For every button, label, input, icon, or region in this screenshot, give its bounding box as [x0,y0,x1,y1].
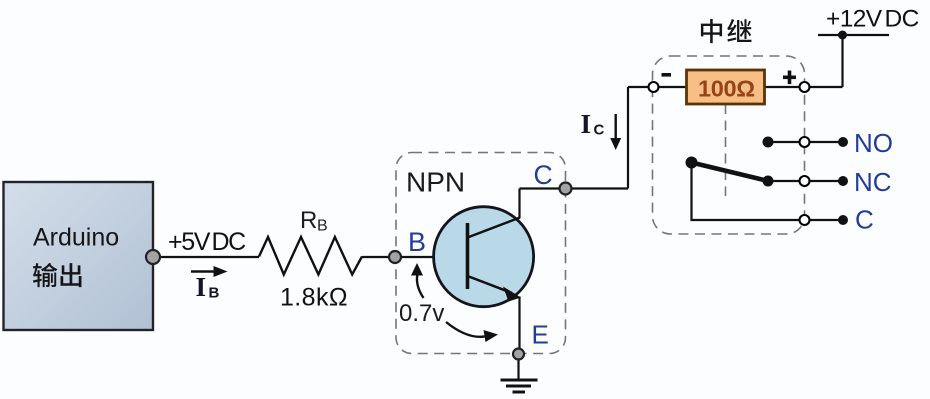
svg-text:+5VDC: +5VDC [168,228,246,256]
svg-text:C: C [534,160,553,190]
svg-text:NPN: NPN [406,167,465,198]
svg-text:1.8kΩ: 1.8kΩ [280,284,348,312]
svg-text:I: I [196,272,207,302]
svg-text:0.7v: 0.7v [399,300,444,327]
svg-text:B: B [209,285,220,302]
svg-text:C: C [855,205,874,235]
svg-text:NO: NO [854,128,893,158]
svg-text:100Ω: 100Ω [698,76,755,102]
svg-text:B: B [317,218,328,235]
svg-text:B: B [408,227,426,257]
svg-text:+12VDC: +12VDC [826,6,919,33]
svg-text:E: E [532,320,549,350]
svg-text:NC: NC [854,167,892,197]
svg-text:Arduino: Arduino [33,224,119,252]
svg-text:R: R [300,207,317,234]
svg-text:I: I [581,109,592,139]
svg-text:C: C [594,122,605,139]
